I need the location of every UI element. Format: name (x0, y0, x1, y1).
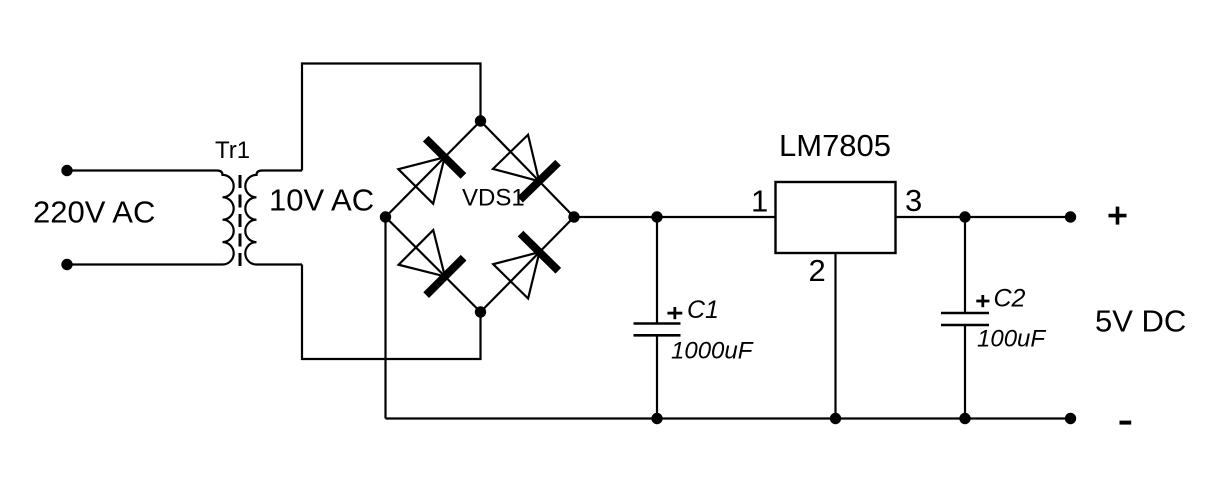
junction C1 bottom (651, 413, 662, 424)
wire ground rail (386, 417, 1071, 419)
node bridge top AC (475, 115, 486, 126)
svg-text:LM7805: LM7805 (779, 128, 891, 163)
regulator U1 LM7805 body (776, 182, 896, 253)
diode D3 cathode bar (426, 258, 463, 295)
wire primary top lead (67, 169, 217, 171)
junction C2 bottom (959, 413, 970, 424)
diode D4 (bottom node to right node): triangle (493, 252, 539, 298)
svg-text:2: 2 (809, 253, 826, 288)
diode D2 cathode bar (520, 163, 558, 200)
svg-text:1: 1 (751, 184, 768, 219)
wire LM7805 pin 3 to plus terminal (896, 216, 1071, 218)
output minus symbol (1120, 421, 1132, 425)
svg-text:VDS1: VDS1 (462, 185, 525, 212)
node bridge left (minus) (380, 211, 391, 222)
svg-text:C1: C1 (687, 296, 719, 324)
svg-text:100uF: 100uF (977, 326, 1046, 353)
junction C1 top (651, 211, 662, 222)
node bridge bottom AC (475, 306, 486, 317)
wire secondary bottom to bridge bottom node (302, 265, 481, 360)
wire bridge plus to LM7805 pin 1 (574, 216, 776, 218)
junction pin 2 / ground rail (830, 413, 841, 424)
terminal node (220V AC top) (61, 165, 72, 176)
diode D4 cathode bar (521, 234, 559, 271)
wire secondary top to bridge top node (302, 64, 481, 171)
svg-text:220V AC: 220V AC (33, 195, 155, 230)
wire bridge minus down to ground rail (384, 217, 386, 419)
capacitor C2 (941, 217, 989, 419)
output plus symbol (1109, 207, 1127, 225)
label C2 polarity plus (976, 295, 989, 307)
node bridge right (plus) (568, 211, 579, 222)
terminal node (220V AC bottom) (61, 259, 72, 270)
diode D1 (left node to top node): triangle (398, 157, 444, 203)
junction C2 top (959, 211, 970, 222)
output minus terminal node (1065, 413, 1076, 424)
svg-text:1000uF: 1000uF (671, 338, 754, 365)
label C1 polarity plus (667, 307, 682, 319)
bridge VDS1 diamond frame (386, 121, 575, 312)
output plus terminal node (1065, 211, 1076, 222)
transformer Tr1 core (dashed) (239, 175, 242, 266)
wire pin 2 to ground rail (834, 253, 836, 419)
transformer Tr1 secondary winding (245, 171, 302, 265)
diode D1 cathode bar (426, 139, 464, 176)
wire primary bottom lead (67, 263, 217, 265)
svg-text:5V DC: 5V DC (1095, 304, 1186, 339)
diode D2 (top node to right node): triangle (493, 135, 539, 181)
svg-text:10V AC: 10V AC (269, 183, 374, 218)
diode D3 (left node to bottom node): triangle (399, 230, 445, 276)
svg-text:3: 3 (905, 183, 922, 218)
transformer Tr1 primary winding (217, 171, 234, 265)
svg-text:C2: C2 (994, 285, 1026, 313)
svg-text:Tr1: Tr1 (215, 137, 250, 164)
capacitor C1 (634, 217, 681, 419)
